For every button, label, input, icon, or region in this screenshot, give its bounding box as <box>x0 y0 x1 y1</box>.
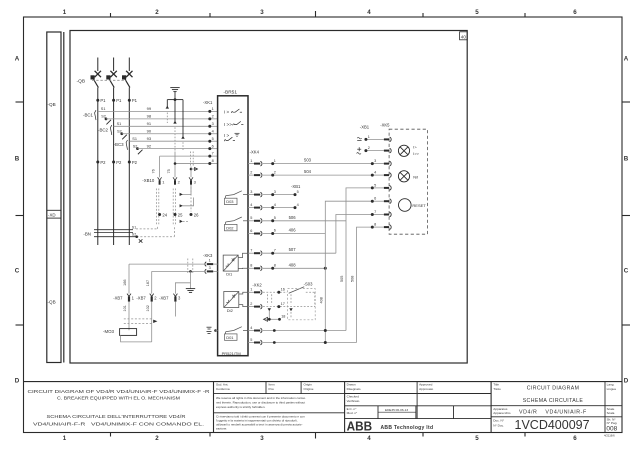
svg-text:N° Pag.: N° Pag. <box>607 421 618 425</box>
BN secondary dashed wires <box>136 226 174 237</box>
node 24 <box>158 213 161 216</box>
svg-text:24: 24 <box>162 213 167 218</box>
ground (surge arrester group) <box>170 88 179 100</box>
svg-text:-MO3: -MO3 <box>103 329 115 334</box>
XB7-3 riser <box>175 283 190 294</box>
svg-text:4: 4 <box>367 9 371 16</box>
svg-text:A: A <box>15 56 20 63</box>
svg-text:Pos: Pos <box>269 387 275 391</box>
pole 1 terminal P2 <box>96 161 99 164</box>
svg-text:-BR51: -BR51 <box>223 90 237 96</box>
svg-text:D: D <box>624 378 629 385</box>
svg-text:ABB Technology ltd: ABB Technology ltd <box>381 425 434 431</box>
svg-text:C. BREAKER EQUIPPED WITH E: C. BREAKER EQUIPPED WITH EL O. MECHANISM <box>57 396 180 401</box>
svg-text:16: 16 <box>281 288 285 292</box>
earth cross mark <box>139 239 143 242</box>
XB1-1 supply symbol <box>357 137 361 140</box>
svg-text:A: A <box>624 56 629 63</box>
svg-text:7: 7 <box>274 248 276 252</box>
riser V1 (to 408 node) <box>325 201 372 342</box>
svg-text:-QB: -QB <box>48 300 56 305</box>
output contact D01 <box>225 334 238 340</box>
XK4 pin 7 <box>248 252 254 254</box>
svg-text:4: 4 <box>250 326 252 330</box>
svg-text:1: 1 <box>63 9 67 16</box>
arrester bus node <box>174 98 177 101</box>
svg-text:5: 5 <box>297 190 299 194</box>
input module Di2 <box>224 292 239 308</box>
svg-text:1: 1 <box>209 259 211 263</box>
svg-text:7: 7 <box>250 249 252 253</box>
arrester branch 3 <box>182 100 184 137</box>
svg-text:S1: S1 <box>132 225 136 229</box>
D01 wire ends <box>324 329 327 332</box>
svg-text:503: 503 <box>304 158 312 163</box>
svg-text:3: 3 <box>374 159 376 163</box>
svg-text:5: 5 <box>250 338 252 342</box>
CT -BC1 on pole 1 <box>95 110 111 124</box>
reset button <box>399 199 412 212</box>
svg-text:Di2: Di2 <box>227 308 234 313</box>
svg-text:-XB1: -XB1 <box>291 184 301 189</box>
output contact D03 <box>225 198 238 204</box>
svg-text:91: 91 <box>147 121 152 126</box>
XK5 pin 2 <box>366 150 384 152</box>
svg-text:D03: D03 <box>226 199 234 204</box>
svg-text:-XD: -XD <box>48 212 56 217</box>
XK5 pin 1 <box>366 138 384 140</box>
plug -XB10 pin 3 <box>189 177 193 180</box>
svg-text:Mod. n°: Mod. n° <box>347 411 358 415</box>
svg-text:2: 2 <box>250 302 252 306</box>
svg-text:CIRCUIT DIAGRAM OF VD4/R V: CIRCUIT DIAGRAM OF VD4/R VD4/UNIAIR-F VD… <box>28 389 211 394</box>
svg-text:6: 6 <box>274 229 276 233</box>
svg-text:VD4/R VD4/UNIAIR-F: VD4/R VD4/UNIAIR-F <box>519 409 587 415</box>
XK4 pin 4 <box>248 207 254 209</box>
svg-text:I >: I > <box>224 110 230 115</box>
pole 2 terminal P2 <box>112 161 115 164</box>
wire 507 <box>263 252 336 254</box>
dashed crossing marks <box>188 259 193 275</box>
svg-text:Apparecchio: Apparecchio <box>493 411 510 415</box>
svg-text:6: 6 <box>374 197 376 201</box>
plug -XB10 pin 1 <box>158 177 162 180</box>
schematic frame <box>70 31 467 364</box>
svg-text:99: 99 <box>147 106 152 111</box>
XK4 pin 6 <box>248 233 254 235</box>
svg-text:D: D <box>15 378 20 385</box>
svg-text:CIRCUIT DIAGRAM: CIRCUIT DIAGRAM <box>527 385 580 391</box>
small header labels <box>216 383 617 428</box>
arrester branch 1 <box>166 100 168 107</box>
svg-text:-XK2: -XK2 <box>252 283 262 288</box>
XK3 pin 1 <box>205 262 206 266</box>
svg-text:PR521/TM: PR521/TM <box>222 351 241 356</box>
svg-text:SCHEMA CIRCUITALE: SCHEMA CIRCUITALE <box>523 398 584 404</box>
svg-text:4: 4 <box>367 435 371 442</box>
svg-text:5: 5 <box>475 9 479 16</box>
title block lines <box>24 382 623 433</box>
svg-text:I>>: I>> <box>413 151 419 156</box>
svg-text:504: 504 <box>304 169 312 174</box>
svg-text:N/I: N/I <box>413 174 418 179</box>
svg-text:101: 101 <box>123 305 127 311</box>
wire drop to XB10-1 <box>159 156 161 177</box>
svg-text:3: 3 <box>260 9 264 16</box>
svg-text:8: 8 <box>274 264 276 268</box>
svg-text:D02: D02 <box>226 225 234 230</box>
pole 1 terminal P1 <box>96 99 99 102</box>
QB pole linkage dashed <box>92 79 126 81</box>
svg-text:C: C <box>624 268 629 275</box>
plug -XB7 pin 1 <box>127 294 131 297</box>
svg-text:98: 98 <box>147 114 152 119</box>
XB7-3 lower stem <box>174 302 176 317</box>
svg-text:8: 8 <box>212 159 214 163</box>
svg-text:1: 1 <box>212 107 214 111</box>
XK1 pin 8 <box>210 163 218 165</box>
XK5 pin 6 <box>372 200 384 202</box>
wire 506 <box>263 220 346 222</box>
svg-text:-S03: -S03 <box>304 281 314 286</box>
svg-text:2: 2 <box>155 435 159 442</box>
mechanical linkage dashed to MO3 <box>124 319 153 324</box>
svg-text:40: 40 <box>461 35 467 40</box>
svg-text:Origine: Origine <box>304 387 314 391</box>
disclaimer text <box>216 396 306 430</box>
svg-text:1VCD400097: 1VCD400097 <box>515 418 590 432</box>
wire 102 <box>151 302 153 342</box>
svg-text:-XK3: -XK3 <box>203 253 213 258</box>
svg-text:I >>: I >> <box>224 122 232 127</box>
CT -BC2 on pole 2 <box>110 125 126 139</box>
svg-text:-BC1: -BC1 <box>83 113 94 118</box>
input module Di1 <box>223 255 238 271</box>
XK5 pin 5 <box>372 187 384 189</box>
XK5 pin 4 <box>372 174 384 176</box>
svg-text:508: 508 <box>351 276 355 282</box>
node 26 <box>190 213 193 216</box>
svg-text:6: 6 <box>250 229 252 233</box>
svg-text:We reserve all rights in this: We reserve all rights in this document a… <box>216 396 306 400</box>
svg-text:S1: S1 <box>117 122 122 126</box>
svg-text:1: 1 <box>250 288 252 292</box>
svg-text:507: 507 <box>289 247 297 252</box>
wire to XK1 pin 8 <box>175 163 210 165</box>
wire drop to XB10-3 with branch arrow <box>190 167 192 178</box>
svg-text:Lingua: Lingua <box>607 387 617 391</box>
svg-text:VD4/UNIAIR-F-R VD4/UNIMIX-F: VD4/UNIAIR-F-R VD4/UNIMIX-F CON COMANDO … <box>33 421 204 426</box>
svg-text:1: 1 <box>368 135 370 139</box>
svg-text:4: 4 <box>250 203 252 207</box>
svg-text:4/2116/6: 4/2116/6 <box>604 434 615 438</box>
XK5 pin 3 <box>372 163 384 165</box>
arrester dashed tails <box>167 113 193 167</box>
svg-text:P1: P1 <box>132 98 138 103</box>
svg-text:S2: S2 <box>117 130 122 134</box>
svg-text:P1: P1 <box>116 98 122 103</box>
svg-text:P2: P2 <box>100 160 106 165</box>
svg-text:3: 3 <box>212 122 214 126</box>
svg-text:P2: P2 <box>116 160 122 165</box>
svg-text:-XB7: -XB7 <box>159 295 169 300</box>
svg-text:B: B <box>15 156 20 163</box>
XK1 pin 5 <box>210 140 218 142</box>
breaker truck bar QB <box>47 32 64 363</box>
MO3 return wire <box>121 335 152 342</box>
junction on XK3-3 wire <box>189 270 192 273</box>
linkage arrows <box>179 193 182 195</box>
svg-text:1: 1 <box>274 159 276 163</box>
XK1 pin 1 <box>210 110 218 112</box>
svg-text:90: 90 <box>147 129 152 134</box>
wire 101 <box>128 302 130 331</box>
wire to XK3-3 <box>152 270 204 272</box>
svg-text:102: 102 <box>146 305 150 311</box>
wire 99 <box>98 110 210 112</box>
XK2 pin 4 <box>248 330 254 332</box>
pole 3 terminal P1 <box>128 99 131 102</box>
XB10 dashed drops <box>156 187 191 226</box>
svg-text:25: 25 <box>178 213 183 218</box>
svg-text:express authority is strictly: express authority is strictly forbidden. <box>216 405 266 409</box>
wire to XK3-1 <box>129 263 204 265</box>
plug -XB7 pin 2 <box>150 294 154 297</box>
svg-text:008: 008 <box>606 425 617 432</box>
svg-text:S1: S1 <box>132 137 137 141</box>
svg-text:5: 5 <box>475 435 479 442</box>
terminal box -XD on truck bar <box>47 210 61 218</box>
ground at XB7-3 branch <box>186 289 195 293</box>
svg-text:C: C <box>15 268 20 275</box>
XK5 pin 8 <box>372 226 384 228</box>
svg-text:93: 93 <box>147 136 152 141</box>
riser V4 (508) <box>357 227 373 342</box>
svg-text:26: 26 <box>194 213 199 218</box>
D01 pin5 wire <box>263 342 357 344</box>
sheet ref box 40 <box>460 32 468 40</box>
D01 aux terminals <box>207 327 212 333</box>
svg-text:1: 1 <box>250 159 252 163</box>
svg-text:N° Doc.: N° Doc. <box>493 423 504 427</box>
XK2 pin 2 <box>248 306 254 308</box>
svg-text:5: 5 <box>250 216 252 220</box>
node 25 <box>174 213 177 216</box>
XK1 pin 3 <box>210 125 218 127</box>
breaker QB pole 2 <box>107 58 117 246</box>
output contact D02 <box>225 224 238 230</box>
svg-text:2: 2 <box>155 9 159 16</box>
svg-text:17: 17 <box>281 302 285 306</box>
svg-text:EDE35 06-06-13: EDE35 06-06-13 <box>385 408 408 412</box>
svg-text:RESET: RESET <box>412 203 426 208</box>
XB7-2 riser (wire 167) <box>151 271 153 293</box>
svg-text:P2: P2 <box>132 160 138 165</box>
XK1 pin 4 <box>210 133 218 135</box>
plug -XB10 pin 2 <box>173 177 177 180</box>
S03 dashed outline <box>288 289 316 320</box>
XB7-1 riser (wire 166) <box>128 264 130 294</box>
XK4 pin 1 <box>248 163 254 165</box>
XK2 pin 5 <box>248 342 254 344</box>
svg-text:4: 4 <box>212 129 214 133</box>
plug -XB7 pin 3 <box>173 294 177 297</box>
wire 98 <box>106 118 210 120</box>
wire 504 <box>263 174 372 176</box>
svg-text:506: 506 <box>289 215 297 220</box>
pole 2 terminal P1 <box>112 99 115 102</box>
protection relay -BR51 (PR521) <box>218 96 248 356</box>
svg-text:408: 408 <box>320 297 324 303</box>
XK1 pin 7 <box>210 155 218 157</box>
wire to XK1 pin 7 <box>160 155 210 157</box>
svg-text:-QB: -QB <box>77 78 86 84</box>
control unit dashed box <box>389 129 427 234</box>
svg-text:18: 18 <box>281 315 285 319</box>
svg-text:-QB: -QB <box>48 102 56 107</box>
svg-text:76: 76 <box>152 169 156 173</box>
svg-text:5: 5 <box>374 183 376 187</box>
svg-text:D01: D01 <box>226 335 234 340</box>
svg-text:1: 1 <box>63 435 67 442</box>
svg-text:6: 6 <box>212 144 214 148</box>
svg-text:3: 3 <box>250 190 252 194</box>
svg-text:-BC2: -BC2 <box>98 127 109 132</box>
riser V2 (507) <box>336 215 372 254</box>
svg-text:6: 6 <box>573 9 577 16</box>
svg-text:5: 5 <box>212 137 214 141</box>
XK1 pin 2 <box>210 118 218 120</box>
svg-text:Verificato: Verificato <box>347 399 360 403</box>
svg-text:7: 7 <box>212 152 214 156</box>
XK5 pin 7 <box>372 214 384 216</box>
title text EN/IT <box>28 389 211 427</box>
XK2-1 dashed wire, node 16 <box>263 292 315 317</box>
svg-text:Doc. N°: Doc. N° <box>493 419 504 423</box>
svg-text:Disegnato: Disegnato <box>347 387 361 391</box>
XK4 pin 3 <box>248 194 254 196</box>
svg-text:-XB1: -XB1 <box>360 124 370 129</box>
svg-text:7: 7 <box>374 210 376 214</box>
svg-text:B: B <box>624 156 629 163</box>
svg-text:S2: S2 <box>101 115 106 119</box>
svg-text:3: 3 <box>274 190 276 194</box>
svg-text:2: 2 <box>274 170 276 174</box>
XB1-2 supply symbol <box>357 147 362 154</box>
down arrows <box>268 308 271 311</box>
Di2 output wires <box>239 292 248 306</box>
D01 pin4 wire <box>263 330 346 332</box>
svg-text:Approvato: Approvato <box>419 387 433 391</box>
CT -BN (ring, all poles) <box>94 230 137 237</box>
svg-text:S2: S2 <box>133 144 138 148</box>
svg-text:408: 408 <box>289 262 297 267</box>
lamp N/I <box>398 171 409 182</box>
wire 92 <box>138 148 210 150</box>
svg-text:166: 166 <box>123 279 127 285</box>
svg-text:8: 8 <box>250 264 252 268</box>
svg-text:-XB7: -XB7 <box>113 295 123 300</box>
svg-text:505: 505 <box>340 276 344 282</box>
XK3 pin 3 <box>205 269 206 273</box>
wire 90 <box>122 133 210 135</box>
svg-text:167: 167 <box>146 280 150 286</box>
svg-text:zazione.: zazione. <box>216 426 227 430</box>
svg-text:75: 75 <box>167 169 171 173</box>
svg-text:-XK1: -XK1 <box>203 100 213 105</box>
svg-text:-BN: -BN <box>83 232 91 237</box>
svg-text:Titolo: Titolo <box>493 387 501 391</box>
svg-text:ned therein. Reproduction, use: ned therein. Reproduction, use or disclo… <box>216 400 305 404</box>
svg-text:-XB10: -XB10 <box>142 178 155 183</box>
svg-text:92: 92 <box>147 143 152 148</box>
wire drop to XB10-2 <box>174 152 176 178</box>
svg-text:6: 6 <box>573 435 577 442</box>
svg-text:Conferma: Conferma <box>216 387 230 391</box>
pole 3 terminal P2 <box>128 161 131 164</box>
svg-text:3: 3 <box>209 266 211 270</box>
svg-text:2: 2 <box>250 171 252 175</box>
svg-text:2: 2 <box>368 146 370 150</box>
svg-text:3: 3 <box>260 435 264 442</box>
svg-text:5: 5 <box>274 216 276 220</box>
svg-text:ABB: ABB <box>347 419 373 433</box>
svg-text:Scala: Scala <box>607 411 615 415</box>
Di1 output wires <box>238 253 248 268</box>
breaker QB pole 1 <box>91 58 101 246</box>
wire 408 <box>263 267 325 269</box>
lamp I> I>> <box>398 145 409 156</box>
wire 93 <box>129 140 210 142</box>
wire 406 <box>263 233 325 235</box>
svg-text:4: 4 <box>274 203 276 207</box>
svg-text:SCHEMA CIRCUITALE DELL'INTER: SCHEMA CIRCUITALE DELL'INTERRUTTORE VD4/… <box>47 414 187 419</box>
svg-text:I >: I > <box>224 133 230 138</box>
svg-text:-BC3: -BC3 <box>114 142 125 147</box>
wire 503 <box>263 163 372 165</box>
node 18 branch <box>268 311 270 320</box>
svg-text:-XK4: -XK4 <box>250 150 260 155</box>
svg-text:8: 8 <box>374 223 376 227</box>
arrester branch 2 <box>174 100 176 122</box>
CT -BC3 on pole 3 <box>126 140 142 154</box>
svg-text:406: 406 <box>289 228 297 233</box>
breaker QB pole 3 <box>123 58 133 246</box>
XK2 pin 1 <box>248 291 254 293</box>
XK1 pin 6 <box>210 148 218 150</box>
svg-text:-XB7: -XB7 <box>136 295 146 300</box>
svg-text:-XK5: -XK5 <box>380 123 390 128</box>
svg-text:P1: P1 <box>100 98 106 103</box>
svg-text:4: 4 <box>297 203 299 207</box>
XK4 pin 5 <box>248 220 254 222</box>
riser V3 (505) <box>346 188 372 331</box>
wire 91 <box>114 125 210 127</box>
svg-text:utilizzarli o renderli accessi: utilizzarli o renderli accessibili a ter… <box>216 422 303 426</box>
svg-text:S1: S1 <box>101 107 106 111</box>
svg-text:2: 2 <box>212 114 214 118</box>
XK4 pin 2 <box>248 174 254 176</box>
XK4 pin 8 <box>248 267 254 269</box>
svg-text:S2: S2 <box>132 232 136 236</box>
title fields <box>515 385 618 437</box>
svg-text:Di1: Di1 <box>226 271 233 276</box>
svg-text:4: 4 <box>374 171 376 175</box>
